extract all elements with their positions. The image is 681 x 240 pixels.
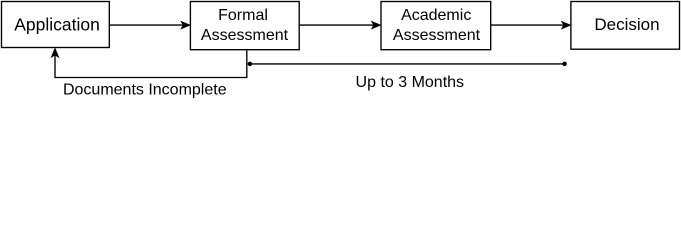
arrow Application to Formal Assessment [109, 22, 189, 29]
svg-text:Academic: Academic [401, 7, 471, 24]
box Academic Assessment [381, 2, 491, 50]
svg-text:Formal: Formal [218, 7, 268, 24]
box Decision [571, 2, 680, 50]
node end dot of duration line [562, 62, 567, 67]
svg-text:Application: Application [14, 14, 100, 34]
wire Up to 3 Months duration line [250, 63, 565, 65]
box Formal Assessment [190, 2, 299, 50]
svg-text:Assessment: Assessment [201, 27, 289, 44]
box Application [2, 2, 110, 48]
node start dot of duration line [248, 62, 253, 67]
arrow Formal Assessment to Academic Assessment [299, 22, 380, 29]
svg-text:Up to 3 Months: Up to 3 Months [356, 74, 465, 91]
svg-text:Decision: Decision [594, 15, 659, 34]
svg-text:Documents Incomplete: Documents Incomplete [63, 81, 227, 98]
svg-text:Assessment: Assessment [393, 27, 481, 44]
arrow Academic Assessment to Decision [491, 22, 571, 29]
wire Documents Incomplete return path (Formal Assessment back to Application) [52, 49, 247, 78]
